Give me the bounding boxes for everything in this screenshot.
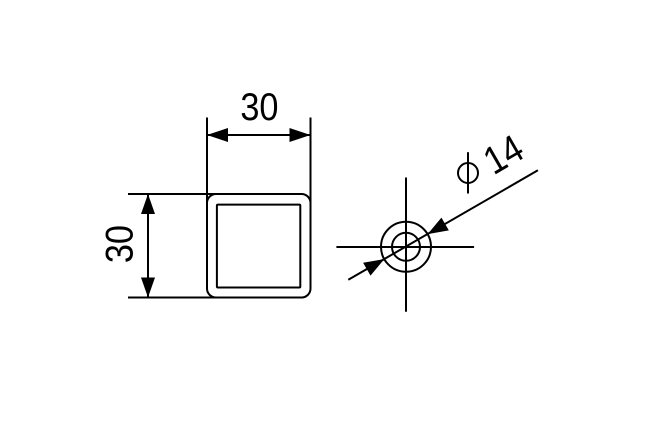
extension line: left dim top [128, 193, 217, 195]
extension line: top dim right [310, 118, 312, 204]
arrowhead: left dim bottom [141, 278, 155, 298]
leader line phi14 [348, 170, 538, 279]
centerline horizontal [336, 246, 474, 248]
diameter symbol slash [467, 152, 469, 193]
inner circle [392, 233, 420, 261]
outer circle [381, 222, 431, 272]
diameter symbol circle [458, 163, 478, 183]
arrowhead: left dim top [141, 194, 155, 214]
extension line: left dim bottom [128, 297, 217, 299]
leader arrowhead lower-left [363, 259, 384, 276]
square tube outer profile [207, 194, 311, 298]
square tube inner profile [217, 205, 300, 288]
dimension line: top 30 [207, 134, 311, 136]
svg-text:30: 30 [97, 225, 141, 263]
arrowhead: top dim right [290, 128, 311, 142]
leader arrowhead upper-right [428, 218, 449, 235]
centerline vertical [405, 178, 407, 312]
dimension line: left 30 [147, 194, 149, 298]
extension line: top dim left [206, 118, 208, 204]
svg-text:30: 30 [240, 85, 278, 129]
arrowhead: top dim left [207, 128, 228, 142]
